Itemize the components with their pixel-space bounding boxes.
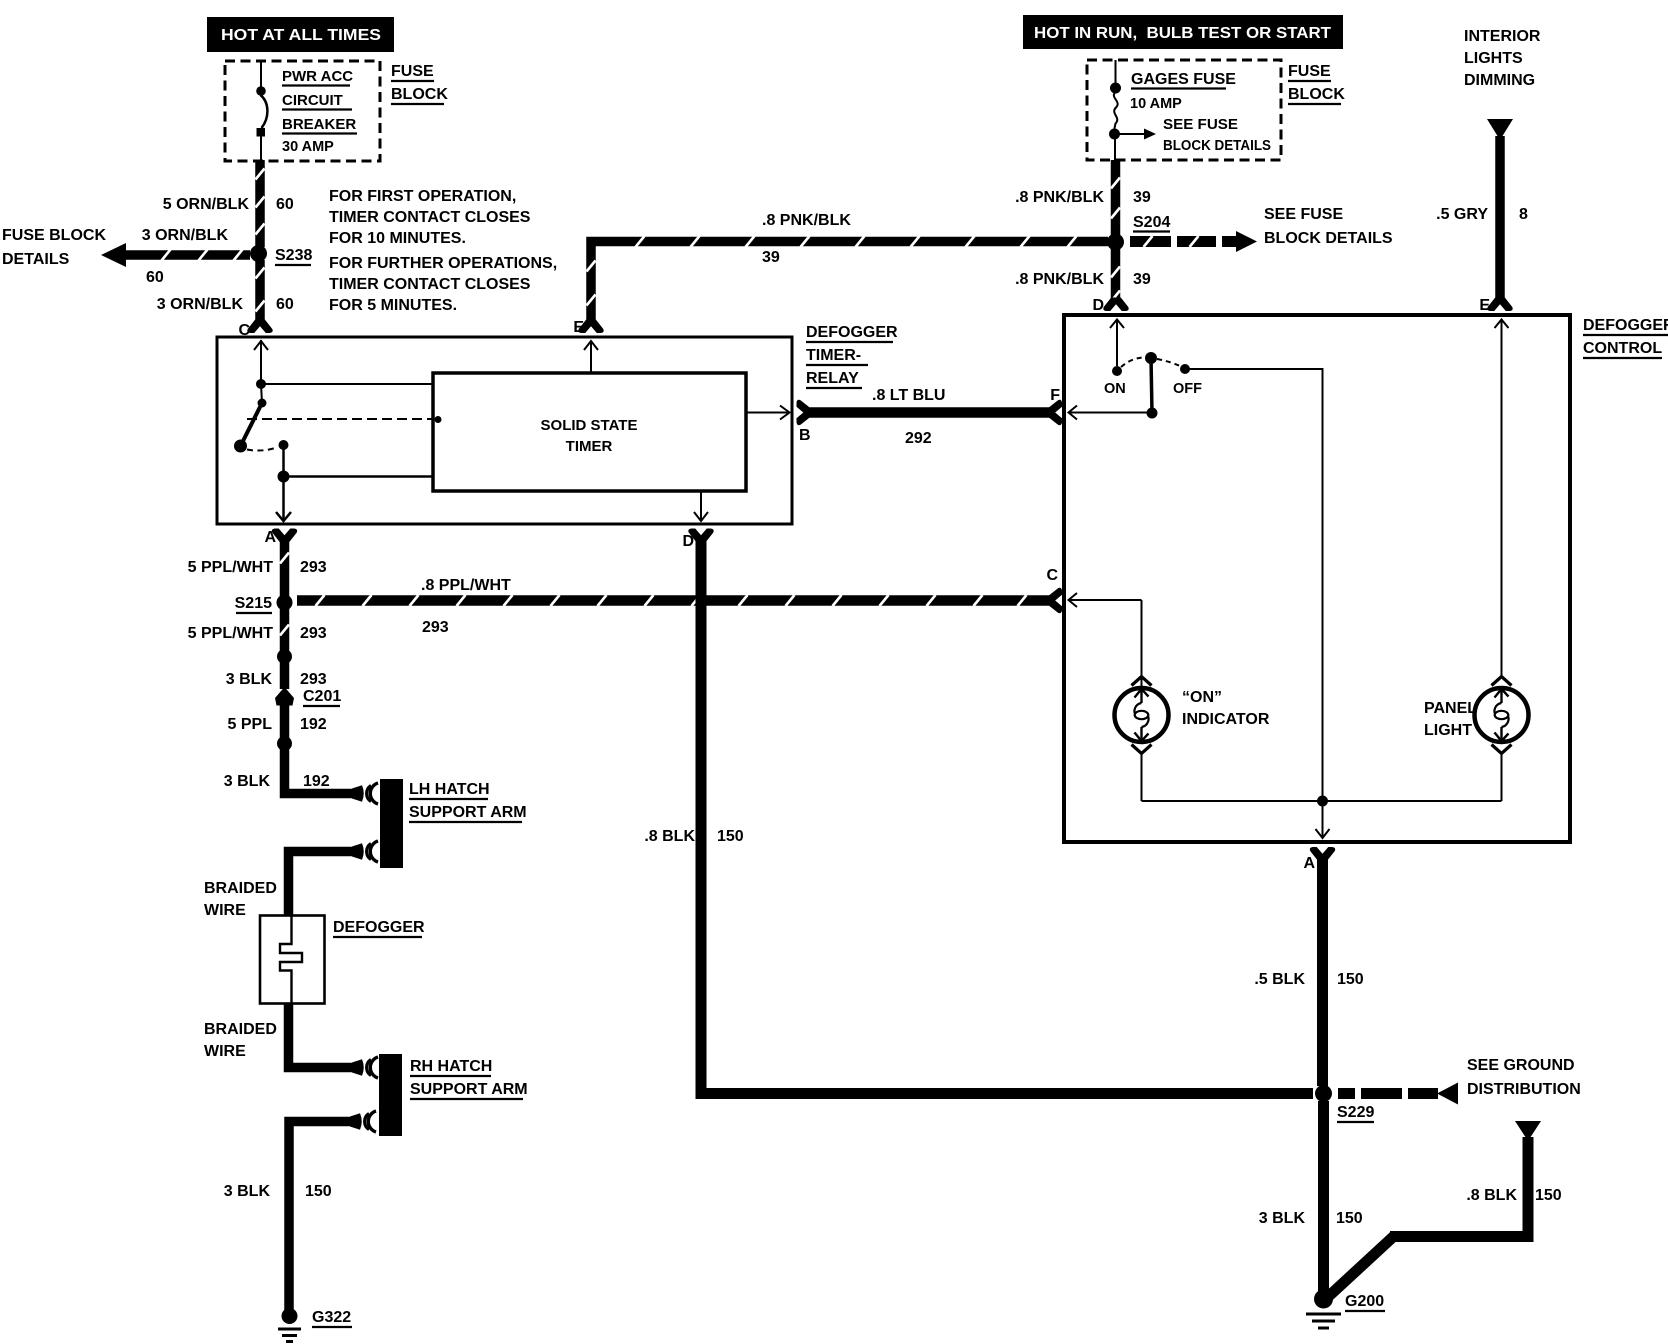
LH hatch support arm connector (lower terminal)	[352, 841, 378, 862]
svg-text:FUSE: FUSE	[391, 63, 434, 80]
solid state timer box	[433, 373, 746, 491]
svg-text:BRAIDED: BRAIDED	[204, 880, 277, 897]
svg-text:“ON”: “ON”	[1182, 689, 1222, 706]
splice S229	[1315, 1085, 1332, 1102]
svg-text:CONTROL: CONTROL	[1583, 340, 1662, 357]
connector pin F (defogger control)	[1049, 400, 1063, 425]
label RH HATCH SUPPORT ARM	[410, 1058, 528, 1099]
fuse GAGES FUSE 10 AMP	[1109, 60, 1121, 160]
wire .5 GRY 8 from interior lights dimming	[1487, 119, 1513, 303]
svg-text:BLOCK DETAILS: BLOCK DETAILS	[1163, 138, 1271, 154]
svg-text:150: 150	[1337, 971, 1364, 988]
bus junction	[1317, 796, 1328, 807]
svg-text:S204: S204	[1133, 214, 1170, 231]
svg-text:TIMER CONTACT CLOSES: TIMER CONTACT CLOSES	[329, 209, 531, 226]
svg-text:INDICATOR: INDICATOR	[1182, 711, 1270, 728]
svg-text:DEFOGGER: DEFOGGER	[1583, 317, 1668, 334]
wire .8 PNK/BLK 39 horizontal S204 to timer pin E	[587, 236, 1109, 326]
svg-text:FOR FIRST OPERATION,: FOR FIRST OPERATION,	[329, 188, 516, 205]
RH hatch support arm connector (lower terminal)	[350, 1111, 376, 1132]
svg-text:WIRE: WIRE	[204, 1043, 246, 1060]
wire 5 ORN/BLK 60 breaker to S238	[256, 160, 265, 247]
svg-text:CIRCUIT: CIRCUIT	[282, 92, 343, 109]
svg-text:DEFOGGER: DEFOGGER	[806, 324, 898, 341]
svg-text:S215: S215	[235, 595, 272, 612]
svg-text:3 ORN/BLK: 3 ORN/BLK	[142, 227, 229, 244]
LH hatch support arm block	[380, 779, 403, 868]
svg-text:60: 60	[276, 296, 294, 313]
wire .8 PNK/BLK 39 S204 to control pin D	[1111, 249, 1120, 303]
svg-text:S229: S229	[1337, 1104, 1374, 1121]
connector pin C (timer relay)	[247, 320, 272, 334]
wire 3 BLK 293 to C201	[280, 656, 290, 689]
svg-text:S238: S238	[275, 247, 312, 264]
svg-text:B: B	[799, 427, 811, 444]
wire .8 PNK/BLK 39 fuse to S204	[1111, 160, 1120, 235]
svg-text:SEE GROUND: SEE GROUND	[1467, 1057, 1575, 1074]
svg-text:E: E	[573, 319, 584, 336]
dashed wire S204 to see fuse block details arrow	[1130, 231, 1257, 252]
label GAGES FUSE 10 AMP	[1130, 71, 1236, 112]
label LH HATCH SUPPORT ARM	[409, 781, 527, 822]
svg-text:SEE FUSE: SEE FUSE	[1163, 117, 1238, 133]
svg-text:SOLID STATE: SOLID STATE	[541, 417, 638, 434]
pin C arrow and wire (inside control)	[1068, 593, 1142, 688]
svg-text:D: D	[1092, 297, 1104, 314]
svg-text:150: 150	[717, 828, 744, 845]
dashed wiper path	[247, 447, 278, 451]
svg-text:BLOCK: BLOCK	[1288, 86, 1345, 103]
label DEFOGGER TIMER RELAY	[806, 324, 898, 388]
svg-text:.8 PPL/WHT: .8 PPL/WHT	[421, 577, 511, 594]
svg-text:60: 60	[146, 269, 164, 286]
wire .5 BLK 150 control pin A to S229	[1317, 858, 1328, 1086]
svg-text:G200: G200	[1345, 1293, 1384, 1310]
header HOT AT ALL TIMES	[207, 17, 394, 52]
connector pin D (defogger control)	[1103, 298, 1128, 312]
pin A arrow (inside control)	[1316, 801, 1330, 838]
svg-text:BREAKER: BREAKER	[282, 116, 356, 133]
svg-text:.8 PNK/BLK: .8 PNK/BLK	[762, 212, 851, 229]
connector C201	[275, 687, 294, 706]
connector pin A (timer relay)	[272, 529, 297, 543]
dashed actuation line to timer	[247, 416, 442, 423]
svg-text:39: 39	[1133, 271, 1151, 288]
wire .8 PPL/WHT 293 S215 to control pin C	[297, 595, 1050, 606]
pin A arrow (inside timer)	[276, 477, 291, 522]
svg-text:OFF: OFF	[1173, 381, 1202, 397]
svg-text:SEE FUSE: SEE FUSE	[1264, 206, 1343, 223]
RH hatch support arm block	[379, 1054, 402, 1136]
relay contact lower node	[279, 440, 289, 450]
svg-text:PWR ACC: PWR ACC	[282, 68, 353, 85]
svg-text:FUSE: FUSE	[1288, 63, 1331, 80]
svg-text:.5 BLK: .5 BLK	[1254, 971, 1305, 988]
svg-text:LH HATCH: LH HATCH	[409, 781, 490, 798]
svg-text:C: C	[1046, 567, 1058, 584]
svg-text:INTERIOR: INTERIOR	[1464, 28, 1541, 45]
svg-text:10 AMP: 10 AMP	[1130, 96, 1182, 112]
relay contact fixed node	[256, 379, 266, 389]
header HOT IN RUN, BULB TEST OR START	[1023, 15, 1343, 49]
wire 3 BLK 192 to LH hatch support arm	[285, 743, 353, 794]
wire contact to solid state timer	[261, 383, 433, 385]
svg-text:5 PPL/WHT: 5 PPL/WHT	[188, 559, 274, 576]
svg-text:DIMMING: DIMMING	[1464, 72, 1535, 89]
svg-text:DISTRIBUTION: DISTRIBUTION	[1467, 1081, 1581, 1098]
svg-text:FOR FURTHER OPERATIONS,: FOR FURTHER OPERATIONS,	[329, 255, 557, 272]
wire 3 BLK 150 RH hatch to ground G322	[289, 1122, 350, 1311]
svg-text:5 PPL/WHT: 5 PPL/WHT	[188, 625, 274, 642]
svg-text:TIMER CONTACT CLOSES: TIMER CONTACT CLOSES	[329, 276, 531, 293]
fuse block dashed box (PWR ACC)	[225, 61, 380, 161]
svg-text:293: 293	[300, 625, 327, 642]
svg-text:C201: C201	[303, 688, 341, 705]
svg-text:DETAILS: DETAILS	[2, 251, 70, 268]
svg-text:192: 192	[300, 716, 327, 733]
LH hatch support arm connector (upper terminal)	[352, 783, 378, 804]
wire panel light to bus	[1501, 754, 1503, 801]
svg-text:8: 8	[1519, 206, 1528, 223]
defogger control box S1	[1064, 315, 1570, 842]
svg-text:SUPPORT ARM: SUPPORT ARM	[410, 1081, 528, 1098]
svg-text:150: 150	[305, 1183, 332, 1200]
defogger grid element	[260, 916, 325, 1004]
connector pin C (defogger control)	[1049, 588, 1063, 613]
svg-text:E: E	[1479, 297, 1490, 314]
svg-text:D: D	[682, 533, 694, 550]
svg-text:.8 PNK/BLK: .8 PNK/BLK	[1015, 271, 1104, 288]
svg-text:5 ORN/BLK: 5 ORN/BLK	[163, 196, 250, 213]
svg-text:WIRE: WIRE	[204, 902, 246, 919]
svg-text:.8 PNK/BLK: .8 PNK/BLK	[1015, 189, 1104, 206]
svg-text:293: 293	[422, 619, 449, 636]
svg-text:293: 293	[300, 671, 327, 688]
ground G200	[1306, 1290, 1341, 1329]
svg-text:GAGES FUSE: GAGES FUSE	[1131, 71, 1236, 88]
braided wire LH hatch to defogger	[289, 852, 353, 917]
ground G322	[278, 1308, 301, 1342]
connector pin D (timer relay)	[688, 529, 713, 543]
svg-text:3 BLK: 3 BLK	[224, 773, 271, 790]
wire .8 BLK 150 timer pin D to S229	[696, 540, 1314, 1099]
svg-text:3 BLK: 3 BLK	[226, 671, 273, 688]
svg-text:LIGHTS: LIGHTS	[1464, 50, 1523, 67]
wire OFF contact to lamp bus	[1185, 369, 1323, 801]
svg-text:RELAY: RELAY	[806, 370, 859, 387]
svg-text:BRAIDED: BRAIDED	[204, 1021, 277, 1038]
label PWR ACC CIRCUIT BREAKER 30 AMP	[282, 68, 357, 155]
svg-text:3 BLK: 3 BLK	[1259, 1210, 1306, 1227]
dashed wiper OFF side	[1157, 359, 1180, 366]
switch arm to pin F node	[1147, 358, 1158, 419]
splice S204	[1107, 234, 1124, 251]
note text timer operation	[329, 188, 557, 314]
svg-text:150: 150	[1336, 1210, 1363, 1227]
wire node to solid state timer	[284, 475, 434, 478]
svg-text:3 ORN/BLK: 3 ORN/BLK	[157, 296, 244, 313]
svg-text:.8 LT BLU: .8 LT BLU	[872, 387, 945, 404]
wire .8 BLK 150 from dimming feed to G200	[1329, 1121, 1541, 1296]
svg-text:192: 192	[303, 773, 330, 790]
svg-text:292: 292	[905, 430, 932, 447]
pin D arrow (inside timer)	[694, 491, 708, 521]
label FUSE BLOCK (left fuse block)	[391, 63, 448, 104]
svg-text:DEFOGGER: DEFOGGER	[333, 919, 425, 936]
pin E arrow (inside timer)	[584, 341, 598, 373]
wire 5 PPL/WHT 293 S215 down	[280, 608, 289, 651]
svg-text:39: 39	[1133, 189, 1151, 206]
lamp panel light	[1475, 677, 1529, 754]
circuit breaker PWR ACC 30 AMP	[256, 61, 267, 160]
svg-text:60: 60	[276, 196, 294, 213]
dashed wire S229 to see ground distribution	[1338, 1083, 1458, 1105]
braided wire defogger to RH hatch	[289, 1004, 353, 1068]
arrow see fuse block details (inside fuse box)	[1120, 117, 1271, 154]
switch pivot	[1145, 352, 1157, 364]
splice S215	[277, 595, 293, 611]
svg-text:FOR 5 MINUTES.: FOR 5 MINUTES.	[329, 297, 457, 314]
connector pin E (timer relay)	[578, 320, 603, 334]
svg-text:30 AMP: 30 AMP	[282, 139, 334, 155]
label DEFOGGER CONTROL	[1583, 317, 1668, 358]
pin D arrow (inside control)	[1110, 319, 1124, 366]
splice S238	[250, 245, 267, 262]
label INTERIOR LIGHTS DIMMING	[1464, 28, 1541, 89]
label FUSE BLOCK (right fuse block)	[1288, 63, 1345, 104]
splice junction	[277, 649, 292, 664]
svg-text:RH HATCH: RH HATCH	[410, 1058, 492, 1075]
lamp "ON" indicator	[1115, 677, 1169, 754]
connector pin A (defogger control)	[1310, 847, 1335, 861]
switch ON contact	[1112, 366, 1122, 376]
pin B arrow (inside timer)	[746, 406, 790, 420]
svg-text:BLOCK: BLOCK	[391, 86, 448, 103]
svg-text:F: F	[1050, 387, 1060, 404]
connector pin E (defogger control)	[1487, 298, 1512, 312]
wire 3 ORN/BLK 60 to fuse block details	[101, 243, 250, 267]
dashed wiper ON side	[1121, 358, 1145, 368]
pin C arrow (inside timer)	[254, 340, 268, 384]
wire .8 LT BLU 292 pin B to control pin F	[808, 407, 1050, 418]
svg-text:5 PPL: 5 PPL	[228, 716, 273, 733]
defogger timer relay box U1	[217, 337, 792, 524]
svg-text:HOT IN RUN, BULB TEST OR STAR: HOT IN RUN, BULB TEST OR START	[1034, 25, 1332, 42]
svg-text:150: 150	[1535, 1187, 1562, 1204]
switch OFF contact	[1180, 364, 1190, 374]
svg-text:A: A	[264, 529, 276, 546]
svg-text:PANEL: PANEL	[1424, 700, 1477, 717]
svg-text:FUSE BLOCK: FUSE BLOCK	[2, 227, 106, 244]
svg-text:293: 293	[300, 559, 327, 576]
wire 3 BLK 150 S229 to ground G200	[1318, 1101, 1329, 1293]
svg-text:39: 39	[762, 249, 780, 266]
svg-text:.8 BLK: .8 BLK	[644, 828, 695, 845]
svg-text:G322: G322	[312, 1309, 351, 1326]
svg-text:LIGHT: LIGHT	[1424, 722, 1472, 739]
wire 3 ORN/BLK 60 S238 to pin C	[256, 260, 265, 321]
svg-text:FOR 10 MINUTES.: FOR 10 MINUTES.	[329, 230, 466, 247]
wire lower node down	[282, 445, 285, 477]
svg-text:BLOCK DETAILS: BLOCK DETAILS	[1264, 230, 1393, 247]
relay contact movable arm	[234, 384, 267, 453]
svg-text:ON: ON	[1104, 381, 1126, 397]
fuse block dashed box (GAGES FUSE)	[1087, 60, 1281, 160]
svg-text:TIMER: TIMER	[566, 438, 613, 455]
svg-text:TIMER-: TIMER-	[806, 347, 861, 364]
pin E arrow and wire to panel light (inside control)	[1495, 319, 1509, 676]
splice junction	[277, 736, 292, 751]
svg-text:3 BLK: 3 BLK	[224, 1183, 271, 1200]
svg-text:.5 GRY: .5 GRY	[1436, 206, 1488, 223]
connector pin B (timer relay)	[797, 400, 811, 425]
lamp ground bus	[1142, 800, 1502, 802]
svg-text:SUPPORT ARM: SUPPORT ARM	[409, 804, 527, 821]
svg-text:HOT AT ALL TIMES: HOT AT ALL TIMES	[221, 27, 381, 44]
wire 5 PPL/WHT 293 timer pin A to S215	[280, 540, 289, 597]
pin F arrow and wire (inside control)	[1068, 406, 1152, 420]
RH hatch support arm connector (upper terminal)	[352, 1057, 378, 1078]
svg-text:A: A	[1303, 855, 1315, 872]
svg-text:.8 BLK: .8 BLK	[1466, 1187, 1517, 1204]
wire ON indicator to bus	[1141, 754, 1143, 801]
wire 5 PPL 192 C201 down	[280, 703, 290, 739]
